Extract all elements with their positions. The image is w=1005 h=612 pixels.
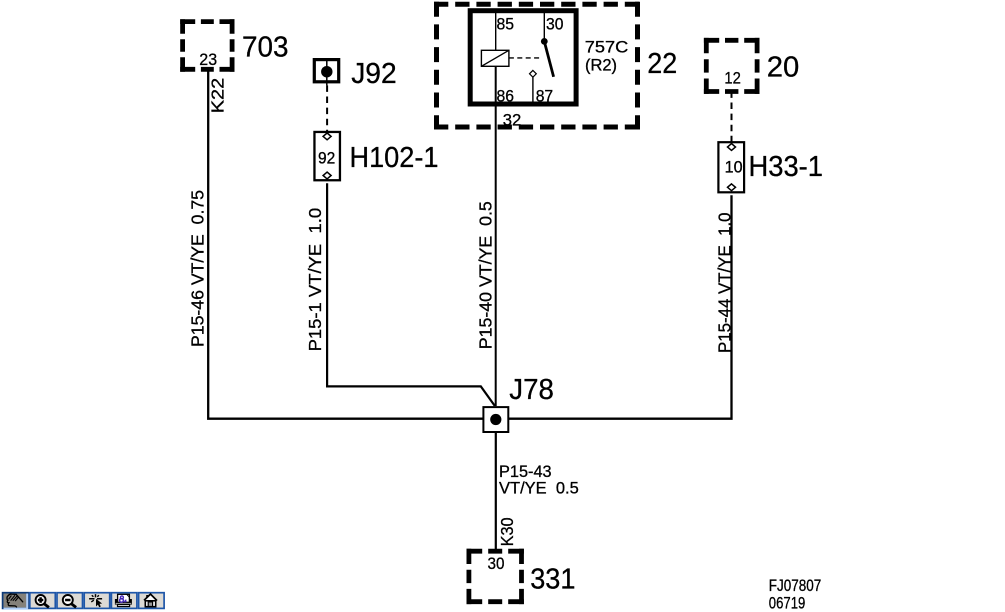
relay unit 22 outer dashed box: [434, 2, 640, 130]
svg-text:P15-1 VT/YE 1.0: P15-1 VT/YE 1.0: [305, 208, 325, 352]
toolbar button: print: [111, 593, 136, 609]
svg-text:20: 20: [767, 51, 800, 83]
svg-text:K22: K22: [207, 78, 227, 113]
dashed wire 20 to H33-1: [731, 91, 733, 141]
connector 20 (dashed box): [704, 38, 760, 94]
svg-text:J92: J92: [351, 58, 397, 90]
splice J92 (box with dot): [314, 58, 338, 85]
wire P15-44 from H33-1 to J78 bus: [508, 195, 731, 419]
relay actuation dashed link: [509, 57, 542, 59]
toolbar button: home: [139, 593, 165, 609]
wire P15-46 from 703 to J78 bus: [208, 71, 483, 419]
svg-text:87: 87: [536, 86, 554, 105]
toolbar button: zoom out: [57, 593, 83, 609]
wire P15-43 from J78 to 331: [495, 433, 497, 550]
svg-text:757C: 757C: [585, 37, 629, 56]
toolbar button: zoom in: [30, 593, 56, 609]
svg-text:H33-1: H33-1: [749, 151, 824, 183]
svg-text:85: 85: [497, 14, 515, 33]
svg-text:VT/YE 0.5: VT/YE 0.5: [499, 478, 579, 497]
relay switch pivot dot: [541, 38, 548, 45]
svg-text:23: 23: [199, 50, 217, 69]
svg-text:10: 10: [725, 158, 743, 177]
svg-text:FJ07807: FJ07807: [769, 577, 822, 595]
connector 703 (dashed box): [180, 19, 234, 71]
svg-text:30: 30: [546, 14, 564, 33]
svg-text:22: 22: [647, 48, 677, 80]
relay pin 87 lead: [532, 77, 534, 104]
relay switch arm: [544, 41, 553, 76]
svg-text:92: 92: [318, 148, 335, 167]
relay coil: [481, 50, 509, 66]
svg-text:H102-1: H102-1: [350, 142, 439, 174]
svg-text:J78: J78: [509, 374, 554, 406]
dashed wire J92 to H102-1: [326, 85, 328, 131]
svg-text:703: 703: [242, 32, 289, 64]
svg-text:P15-46 VT/YE 0.75: P15-46 VT/YE 0.75: [187, 190, 207, 347]
svg-text:P15-44 VT/YE 1.0: P15-44 VT/YE 1.0: [714, 213, 734, 354]
wire P15-40 from relay pin 32 to J78: [495, 66, 497, 406]
connector H102-1: [314, 132, 340, 180]
svg-text:32: 32: [503, 110, 522, 129]
toolbar button: pan (pressed): [3, 593, 29, 609]
junction J78 (box with dot): [483, 407, 508, 432]
svg-text:06719: 06719: [769, 595, 806, 612]
svg-text:331: 331: [530, 563, 575, 595]
svg-text:(R2): (R2): [585, 55, 617, 74]
wire P15-1 from H102-1 to J78: [327, 183, 495, 406]
connector 331 (dashed box): [467, 549, 524, 604]
relay pin 87 diamond contact: [530, 70, 537, 77]
relay pin 30 lead: [543, 12, 545, 41]
svg-text:30: 30: [488, 554, 505, 573]
svg-text:12: 12: [724, 69, 741, 88]
svg-text:P15-40 VT/YE 0.5: P15-40 VT/YE 0.5: [476, 201, 496, 349]
svg-text:86: 86: [497, 86, 515, 105]
connector H33-1: [718, 142, 744, 192]
svg-text:K30: K30: [497, 517, 517, 546]
toolbar button: select (cursor with sparks): [84, 593, 110, 609]
relay 757C (R2) inner box: [470, 11, 576, 104]
relay pin 85 lead: [495, 12, 497, 50]
